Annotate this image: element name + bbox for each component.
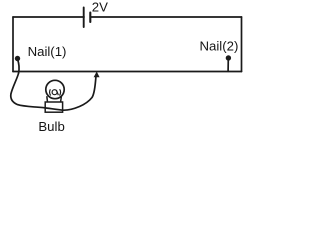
wire nail1 pin <box>18 59 20 73</box>
battery cell long plate <box>83 8 85 28</box>
wire bottom edge <box>13 71 242 73</box>
wire left edge <box>12 17 14 72</box>
arrowhead on loop wire <box>94 72 100 78</box>
svg-text:Nail(2): Nail(2) <box>200 38 239 53</box>
wire right edge <box>241 17 243 72</box>
bulb base neck <box>47 96 62 102</box>
svg-text:Nail(1): Nail(1) <box>28 44 67 59</box>
bulb base <box>45 102 62 112</box>
node Nail(1) dot <box>15 56 20 61</box>
battery cell short plate <box>89 13 91 23</box>
svg-text:Bulb: Bulb <box>38 119 64 134</box>
wire loop to bulb <box>11 73 96 110</box>
bulb filament <box>50 89 61 95</box>
bulb L1 envelope <box>46 80 64 98</box>
wire top-left segment <box>13 16 84 18</box>
node Nail(2) dot <box>226 55 231 60</box>
svg-text:2V: 2V <box>92 0 108 14</box>
wire top-right segment <box>90 16 241 18</box>
wire nail2 pin <box>227 59 229 72</box>
